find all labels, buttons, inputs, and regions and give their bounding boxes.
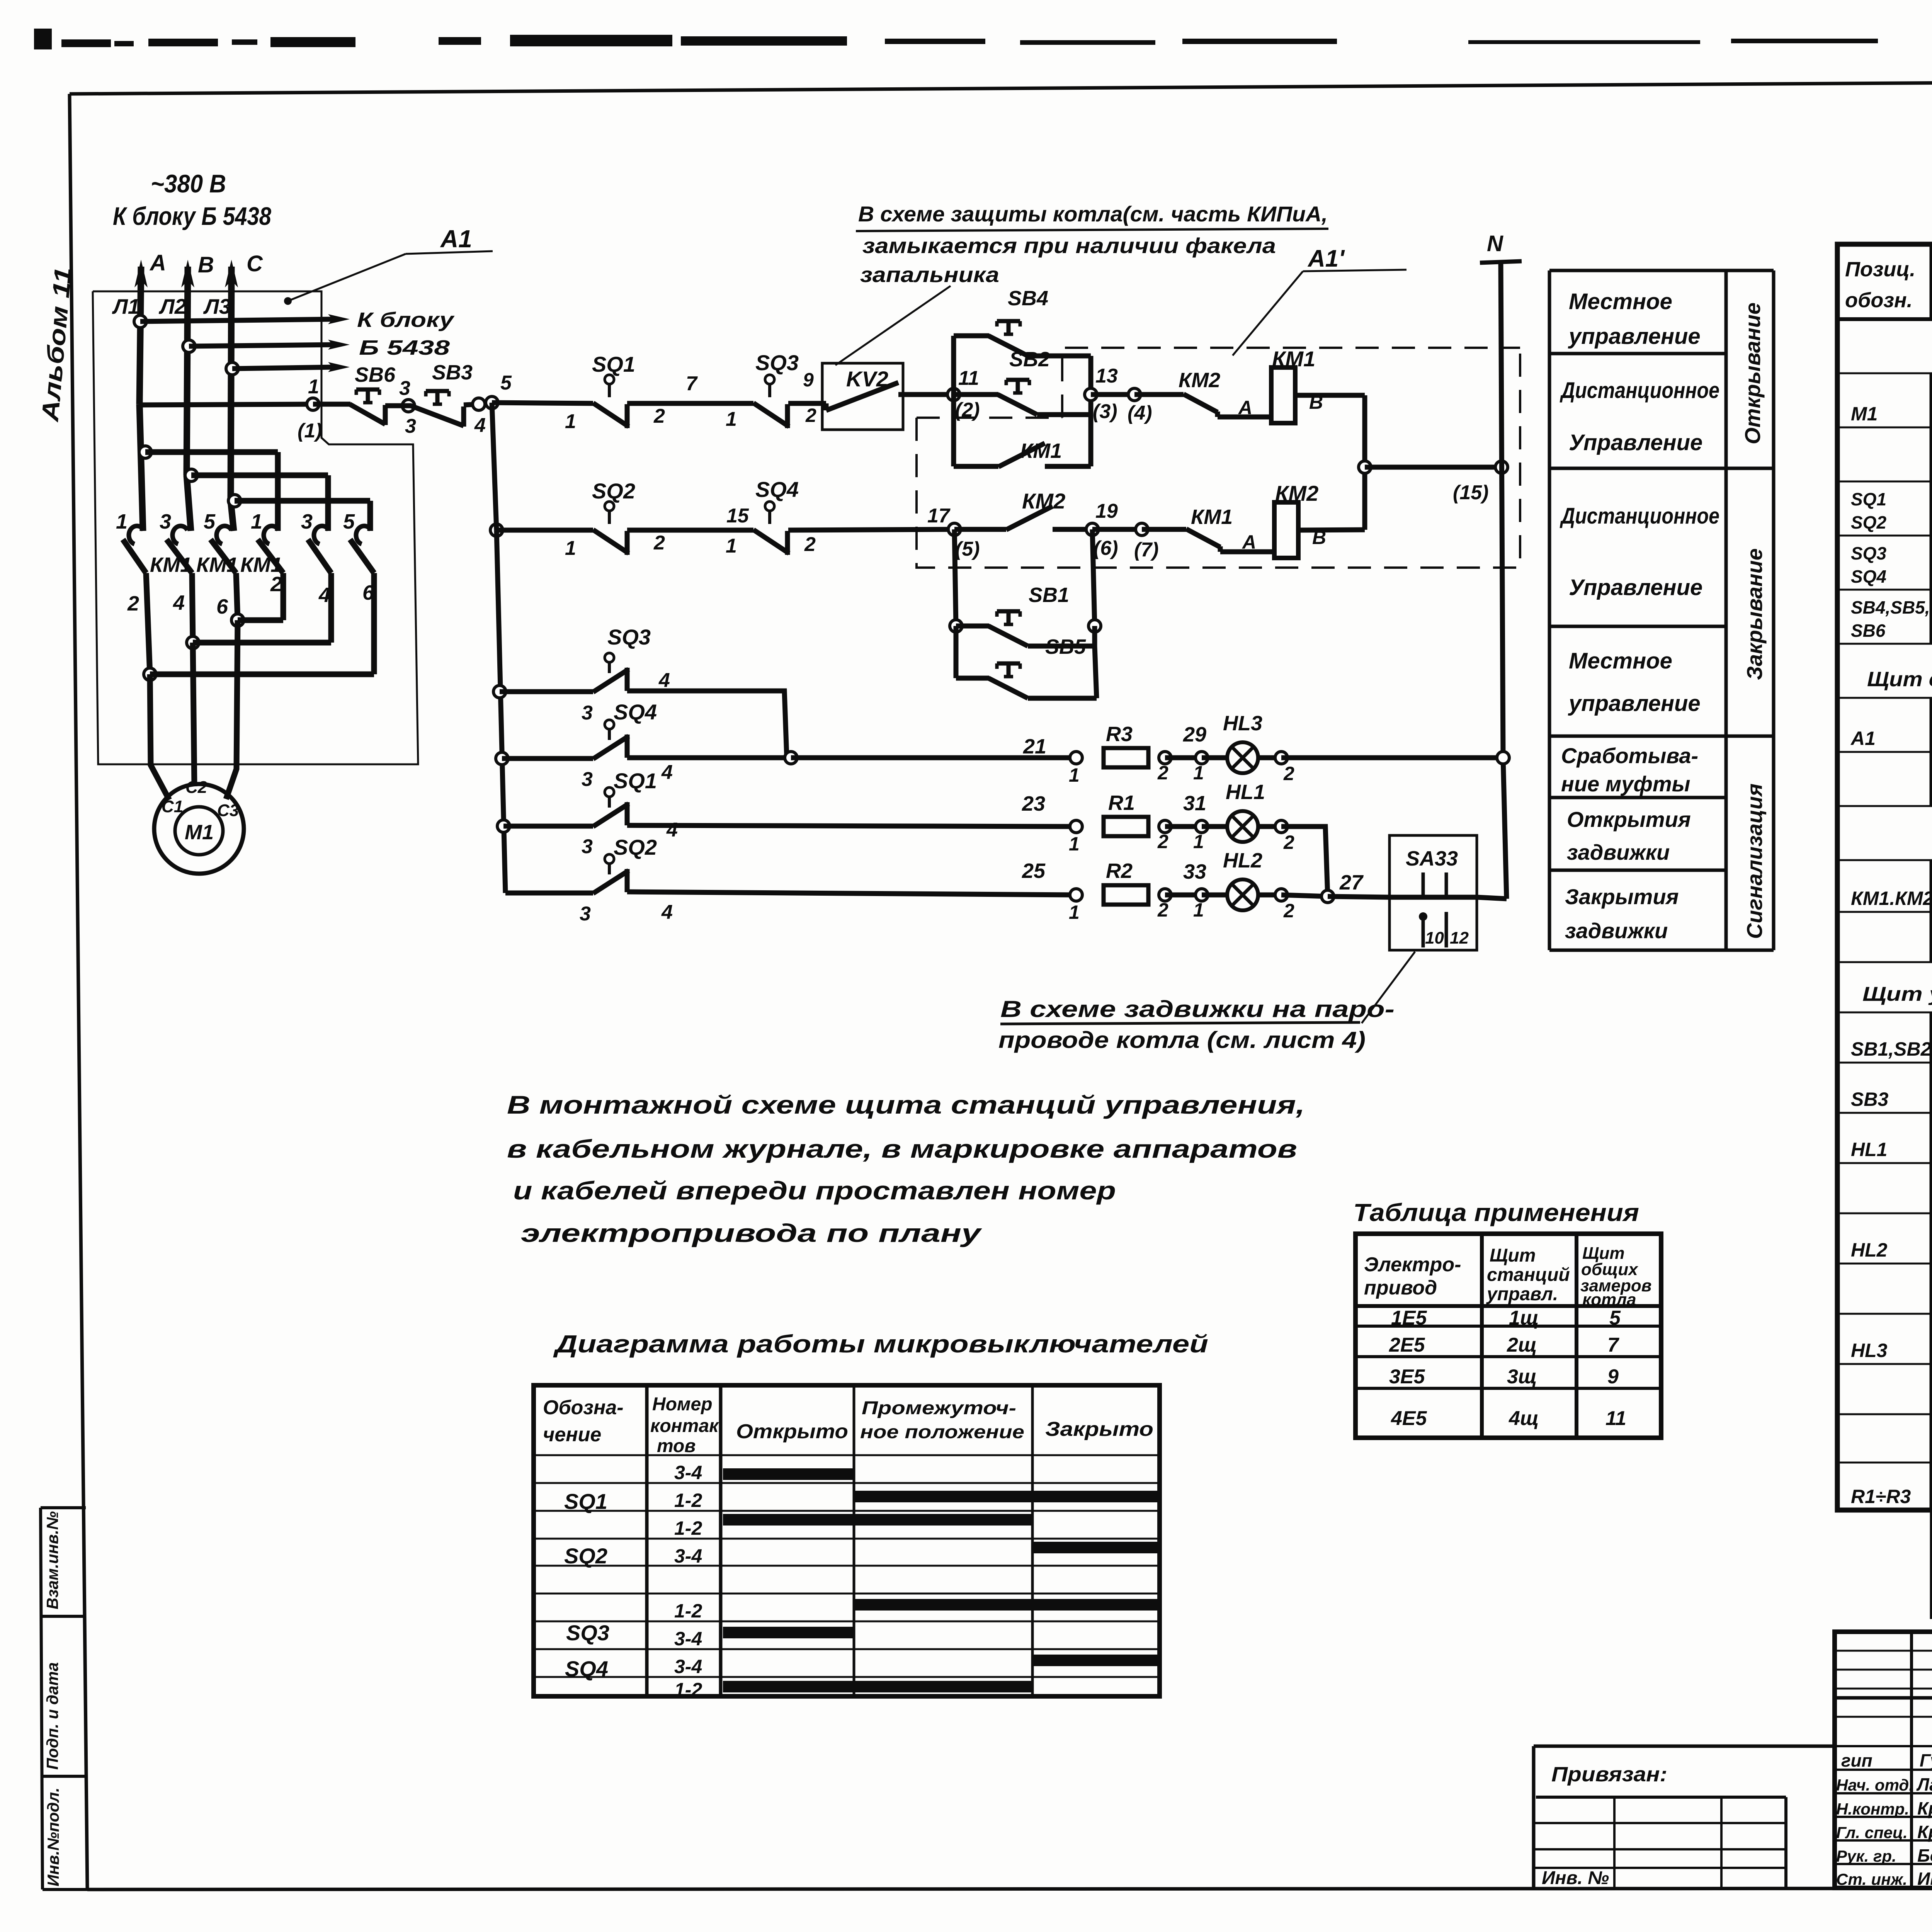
svg-text:12: 12 — [1450, 929, 1469, 947]
svg-text:1: 1 — [1193, 899, 1204, 921]
diagram contact row 3-4 bar — [674, 1542, 1157, 1567]
svg-text:33: 33 — [1183, 860, 1206, 883]
limit switch SQ3 aux contact — [593, 653, 629, 692]
svg-text:4: 4 — [658, 669, 670, 692]
svg-text:чение: чение — [543, 1423, 601, 1446]
node after R1 — [1157, 820, 1171, 852]
svg-text:Креймер: Креймер — [1917, 1822, 1932, 1842]
wire to lamp HL1 — [1202, 824, 1227, 829]
svg-text:SB2: SB2 — [1009, 348, 1050, 371]
svg-text:1: 1 — [726, 408, 737, 430]
svg-text:2: 2 — [1283, 763, 1294, 784]
svg-text:1: 1 — [1069, 833, 1080, 855]
main contact pole 5 (KM2) — [308, 526, 331, 573]
connector pins 10 12 — [1419, 912, 1469, 947]
phase B line — [181, 260, 194, 531]
svg-text:SQ4: SQ4 — [565, 1656, 608, 1681]
svg-text:1: 1 — [1193, 762, 1204, 784]
wire K bloku with arrow — [134, 308, 455, 332]
svg-text:1: 1 — [1069, 901, 1080, 923]
contact KM2 aux — [1006, 506, 1053, 530]
svg-text:1-2: 1-2 — [674, 1600, 702, 1622]
terminal labels SQ1 — [565, 405, 665, 433]
svg-text:КМ1: КМ1 — [196, 553, 238, 577]
element row SB3 — [1851, 1071, 1932, 1116]
svg-text:2: 2 — [1283, 832, 1294, 853]
pushbutton SB3 — [411, 391, 464, 427]
node 1 — [298, 376, 322, 442]
application row 4E5 — [1391, 1407, 1626, 1430]
svg-text:3: 3 — [399, 377, 410, 400]
svg-text:(3): (3) — [1093, 400, 1117, 423]
wire SQ1 to SQ3 — [627, 401, 753, 406]
node 5 — [486, 372, 512, 409]
terminal labels SQ4 aux — [582, 761, 673, 791]
element row М1 — [1851, 401, 1932, 425]
svg-text:SQ2: SQ2 — [1851, 512, 1886, 532]
svg-text:С: С — [247, 251, 263, 276]
pole2 bottom wire — [187, 573, 199, 649]
diagram contact row 3-4 bar — [674, 1655, 1157, 1677]
terminal labels SQ1 aux — [582, 819, 678, 858]
svg-text:электропривода по плану: электропривода по плану — [521, 1219, 982, 1247]
wire 27 to SA33 — [1281, 871, 1389, 903]
svg-text:SQ1: SQ1 — [564, 1489, 607, 1514]
diagram header — [543, 1394, 1153, 1456]
wire 21 — [791, 735, 1076, 758]
svg-text:Инв.№подл.: Инв.№подл. — [44, 1787, 62, 1886]
svg-text:Щит: Щит — [1490, 1245, 1536, 1266]
aux rung SQ4 — [496, 752, 593, 765]
wire SB2 main branch — [954, 392, 998, 397]
svg-text:R3: R3 — [1106, 723, 1133, 746]
svg-text:SB5: SB5 — [1045, 635, 1086, 658]
wire HL1 right corner down — [1281, 827, 1328, 896]
svg-text:SB1: SB1 — [1029, 583, 1069, 607]
svg-text:КМ2: КМ2 — [1179, 369, 1220, 392]
svg-text:HL1: HL1 — [1226, 781, 1265, 804]
wire to lamp HL2 — [1202, 893, 1227, 898]
svg-text:3: 3 — [582, 835, 593, 858]
svg-text:31: 31 — [1183, 792, 1206, 815]
svg-text:1: 1 — [565, 410, 576, 433]
control rung 1 wire from phase A — [139, 404, 313, 405]
aux rung SQ1 — [497, 820, 593, 832]
svg-text:10: 10 — [1425, 929, 1444, 947]
svg-text:Закрыто: Закрыто — [1045, 1418, 1153, 1440]
svg-text:КМ1: КМ1 — [1272, 347, 1315, 371]
pushbutton SB1 — [988, 611, 1028, 646]
svg-text:Латынцев: Латынцев — [1916, 1774, 1932, 1794]
svg-text:4: 4 — [474, 414, 486, 437]
node after R2 — [1157, 889, 1171, 921]
svg-text:Гусева: Гусева — [1920, 1750, 1932, 1770]
lamp HL1 — [1227, 811, 1258, 842]
svg-text:КМ1: КМ1 — [1191, 505, 1233, 529]
svg-text:9: 9 — [1607, 1366, 1619, 1388]
node 19 — [1086, 500, 1118, 560]
relay contact KV2 box — [822, 363, 954, 430]
coil KM2 — [1274, 502, 1298, 558]
svg-text:1-2: 1-2 — [674, 1490, 702, 1511]
phase B feed to KM2 pole 5 — [185, 469, 328, 531]
node 4 — [473, 398, 486, 437]
node 17 — [927, 505, 980, 560]
svg-text:ное положение: ное положение — [860, 1422, 1024, 1442]
svg-text:А: А — [1242, 531, 1256, 553]
element list table grid — [1837, 244, 1932, 1619]
svg-text:7: 7 — [1607, 1334, 1619, 1356]
svg-text:3-4: 3-4 — [674, 1656, 702, 1677]
svg-text:13: 13 — [1095, 365, 1118, 387]
application row 1E5 — [1391, 1307, 1621, 1329]
svg-text:15: 15 — [726, 505, 749, 527]
svg-text:2щ: 2щ — [1507, 1334, 1537, 1356]
node after lamp HL1 — [1258, 820, 1294, 853]
svg-text:Сигнализация: Сигнализация — [1742, 784, 1767, 939]
svg-text:1: 1 — [116, 510, 128, 533]
svg-text:SQ1: SQ1 — [614, 769, 657, 793]
pushbutton SB4 — [988, 321, 1028, 356]
svg-text:3щ: 3щ — [1507, 1366, 1537, 1388]
svg-text:гип: гип — [1841, 1750, 1872, 1770]
terminal labels SQ2 — [565, 532, 665, 560]
node wire 33 — [1165, 860, 1208, 921]
svg-text:2: 2 — [1157, 899, 1168, 921]
svg-text:Местное: Местное — [1569, 648, 1672, 673]
resistor R3 — [1104, 748, 1148, 767]
svg-text:SB4: SB4 — [1008, 287, 1048, 310]
wire rung2 to SQ2 — [497, 528, 593, 533]
svg-text:Б 5438: Б 5438 — [359, 336, 450, 359]
node wire 29 — [1165, 723, 1208, 784]
svg-text:управление: управление — [1568, 691, 1701, 716]
title block frame — [1835, 1632, 1932, 1888]
node rung2 left — [490, 403, 503, 536]
svg-text:SQ2: SQ2 — [614, 835, 657, 859]
wire 21 junction node — [627, 752, 797, 764]
svg-text:25: 25 — [1022, 859, 1046, 883]
svg-text:Управление: Управление — [1569, 430, 1702, 455]
node 13 — [1085, 365, 1118, 423]
svg-text:4щ: 4щ — [1509, 1407, 1539, 1430]
motor lead C2 — [193, 643, 194, 786]
limit switch SQ3 contact — [753, 375, 789, 428]
svg-text:R1÷R3: R1÷R3 — [1851, 1486, 1911, 1507]
svg-text:9: 9 — [803, 369, 814, 391]
diagram contact row 3-4 bar — [674, 1627, 854, 1650]
svg-text:(5): (5) — [955, 538, 980, 560]
svg-text:Л2: Л2 — [158, 294, 187, 318]
svg-text:SB1,SB2.: SB1,SB2. — [1851, 1038, 1932, 1060]
terminal labels SQ3 — [726, 369, 816, 430]
svg-text:КМ2: КМ2 — [1022, 489, 1065, 513]
svg-text:КМ1: КМ1 — [1020, 439, 1062, 463]
svg-text:В: В — [198, 252, 214, 277]
svg-text:2: 2 — [805, 405, 816, 426]
svg-text:HL3: HL3 — [1223, 712, 1262, 735]
title block names — [1916, 1750, 1932, 1889]
cell remote control 1 — [1560, 378, 1719, 455]
svg-text:11: 11 — [1605, 1407, 1626, 1430]
contact KM2 NC — [1184, 394, 1271, 417]
wire node17 down to SB1 branch — [950, 529, 962, 632]
svg-text:3-4: 3-4 — [674, 1545, 702, 1567]
node 15 tie — [1359, 461, 1508, 504]
svg-text:SB4,SB5,: SB4,SB5, — [1851, 597, 1930, 617]
note montage scheme — [507, 1090, 1305, 1247]
svg-text:В схеме задвижки на паро-: В схеме задвижки на паро- — [1000, 996, 1395, 1022]
svg-text:К блоку: К блоку — [357, 308, 455, 332]
svg-text:5: 5 — [1609, 1307, 1621, 1329]
svg-text:проводе котла (см. лист 4): проводе котла (см. лист 4) — [998, 1027, 1366, 1053]
svg-text:1Е5: 1Е5 — [1391, 1307, 1427, 1329]
svg-text:КМ1.КМ2: КМ1.КМ2 — [1851, 888, 1932, 909]
svg-text:Рук. гр.: Рук. гр. — [1836, 1847, 1896, 1865]
svg-text:19: 19 — [1095, 500, 1118, 522]
svg-text:М1: М1 — [1851, 403, 1878, 425]
svg-text:N: N — [1487, 231, 1503, 256]
node before R1 — [1069, 820, 1082, 855]
svg-text:станций: станций — [1487, 1265, 1570, 1285]
svg-text:управление: управление — [1568, 324, 1701, 349]
element list header — [1845, 258, 1932, 312]
signal table — [1549, 270, 1774, 950]
svg-text:обозн.: обозн. — [1845, 289, 1913, 312]
svg-text:3: 3 — [301, 510, 313, 533]
svg-text:5: 5 — [204, 510, 216, 533]
cell local control 2 — [1568, 648, 1701, 716]
svg-text:SA33: SA33 — [1406, 847, 1458, 870]
block A1 thin boundary — [93, 291, 418, 764]
wire branch down KM1 aux — [954, 395, 998, 466]
coil KM1 — [1271, 367, 1295, 423]
cell valve opening — [1567, 807, 1691, 864]
wire SB5 loop — [956, 626, 1097, 698]
wire 23 — [627, 792, 1076, 827]
svg-text:SB6: SB6 — [1851, 621, 1886, 641]
main contact pole 6 (KM2) — [350, 526, 374, 573]
resistor R1 — [1104, 817, 1148, 836]
svg-text:С3: С3 — [217, 801, 239, 820]
svg-text:SQ3: SQ3 — [755, 350, 799, 375]
svg-text:17: 17 — [927, 505, 951, 527]
svg-text:Позиц.: Позиц. — [1845, 258, 1915, 281]
svg-text:HL2: HL2 — [1223, 849, 1262, 872]
block A1' dashed boundary — [917, 348, 1520, 568]
svg-text:Гл. спец.: Гл. спец. — [1836, 1823, 1908, 1842]
node before R3 — [1069, 752, 1082, 786]
cell local control 1 — [1568, 289, 1701, 349]
bound to label box — [1534, 1746, 1835, 1888]
node (7) — [1092, 523, 1159, 561]
svg-text:1: 1 — [726, 535, 737, 557]
svg-text:SB3: SB3 — [1851, 1088, 1888, 1110]
svg-text:SQ3: SQ3 — [1851, 543, 1886, 563]
svg-text:Управление: Управление — [1569, 575, 1702, 600]
svg-text:SB3: SB3 — [432, 361, 473, 384]
wire SQ4 to node 17 — [788, 529, 954, 530]
svg-text:замыкается при наличии факел: замыкается при наличии факела — [862, 233, 1276, 258]
svg-text:5: 5 — [343, 510, 355, 533]
svg-text:3: 3 — [405, 415, 416, 437]
svg-text:SQ4: SQ4 — [1851, 566, 1886, 587]
node (4) — [1091, 388, 1152, 424]
limit switch SQ4 contact — [753, 502, 789, 555]
svg-text:задвижки: задвижки — [1567, 840, 1670, 864]
svg-text:SQ1: SQ1 — [1851, 489, 1886, 509]
svg-text:Дистанционное: Дистанционное — [1560, 503, 1719, 529]
svg-text:1: 1 — [251, 510, 262, 533]
limit switch SQ2 contact — [593, 502, 629, 555]
limit switch SQ2 aux contact — [593, 854, 629, 893]
terminal labels SQ2 aux — [580, 901, 673, 925]
svg-text:Щит станций управления(см.табл: Щит станций управления(см.таблицу примен… — [1867, 668, 1932, 691]
svg-text:11: 11 — [958, 367, 979, 389]
title block roles — [1836, 1750, 1913, 1888]
phase C line — [225, 260, 238, 531]
main contact pole 3 (KM1) — [211, 526, 236, 573]
svg-text:Дистанционное: Дистанционное — [1560, 378, 1719, 403]
aux rung SQ3 — [493, 685, 593, 698]
wire SB3 to node 5 — [464, 404, 479, 405]
svg-text:SQ2: SQ2 — [592, 479, 635, 503]
vertical feed line left — [497, 530, 505, 893]
svg-text:HL1: HL1 — [1851, 1139, 1887, 1160]
motor lead C1 — [150, 674, 169, 800]
svg-text:и кабелей впереди проставл: и кабелей впереди проставлен номер — [513, 1176, 1116, 1205]
diagram table grid — [534, 1385, 1160, 1696]
wire to KM2 NC contact — [1134, 392, 1184, 397]
svg-text:Открытия: Открытия — [1567, 807, 1691, 832]
cell valve closing — [1565, 884, 1679, 943]
svg-text:1-2: 1-2 — [674, 1679, 702, 1701]
svg-text:Номер: Номер — [652, 1394, 713, 1415]
svg-text:3: 3 — [160, 510, 171, 533]
aux rung SQ2 — [505, 891, 593, 896]
element row А1 — [1850, 725, 1932, 750]
wire SB2 to node 13 — [1037, 412, 1091, 417]
svg-text:3: 3 — [582, 768, 593, 791]
phase A line — [134, 260, 148, 531]
svg-text:А: А — [1238, 397, 1252, 418]
svg-text:SQ4: SQ4 — [614, 700, 657, 724]
svg-text:4Е5: 4Е5 — [1391, 1407, 1427, 1430]
svg-text:ние муфты: ние муфты — [1561, 772, 1690, 796]
svg-text:контак: контак — [650, 1416, 719, 1436]
svg-text:SQ2: SQ2 — [564, 1544, 607, 1568]
tie wire poles 1-6 — [150, 573, 374, 674]
svg-text:HL3: HL3 — [1851, 1340, 1888, 1361]
diagram contact row 3-4 bar — [674, 1462, 854, 1483]
terminal labels SQ3 aux — [582, 669, 670, 724]
motor lead C3 — [226, 620, 238, 799]
svg-text:привод: привод — [1364, 1277, 1437, 1299]
element row SB1 — [1851, 1021, 1932, 1065]
svg-text:R1: R1 — [1108, 791, 1135, 815]
svg-text:Таблица применения: Таблица применения — [1353, 1199, 1639, 1226]
svg-text:2: 2 — [1157, 831, 1168, 852]
svg-text:Закрывание: Закрывание — [1742, 548, 1767, 680]
main contact pole 2 (KM1) — [167, 526, 192, 573]
limit switch SQ1 aux contact — [593, 787, 629, 827]
svg-text:Открыто: Открыто — [736, 1420, 848, 1443]
svg-text:Электро-: Электро- — [1364, 1253, 1461, 1276]
contact KM1 NC — [1186, 529, 1274, 552]
svg-text:SB6: SB6 — [355, 363, 396, 386]
svg-text:4: 4 — [661, 761, 673, 784]
svg-text:М1: М1 — [185, 821, 214, 844]
wire to KM1 NC contact — [1142, 527, 1186, 532]
svg-text:Взам.инв.№: Взам.инв.№ — [43, 1511, 61, 1609]
svg-text:А: А — [149, 250, 166, 276]
svg-text:В монтажной схеме щита стан: В монтажной схеме щита станций управлени… — [507, 1090, 1305, 1119]
wire SA33 to N corner — [1477, 897, 1507, 899]
wire coil KM1 to right bus — [1295, 395, 1365, 530]
diagram contact row 1-2 bar — [674, 1599, 1157, 1622]
svg-text:задвижки: задвижки — [1565, 918, 1668, 943]
wire SQ2 to SQ4 — [627, 528, 753, 533]
node 11 — [947, 367, 980, 421]
svg-text:(7): (7) — [1134, 539, 1159, 561]
wire node3 to SB3 — [385, 403, 412, 408]
svg-text:Л1: Л1 — [112, 294, 139, 318]
svg-text:3Е5: 3Е5 — [1389, 1366, 1425, 1388]
svg-text:6: 6 — [216, 595, 228, 618]
svg-text:2: 2 — [270, 573, 282, 596]
svg-text:23: 23 — [1022, 792, 1045, 815]
lamp HL3 — [1227, 742, 1258, 773]
svg-text:(4): (4) — [1128, 402, 1152, 424]
svg-text:С1: С1 — [162, 797, 183, 816]
svg-text:SQ3: SQ3 — [607, 625, 651, 649]
wire node17 to KM2 aux — [954, 527, 1006, 532]
leader to note SA33 — [1362, 952, 1415, 1023]
limit switch SQ4 aux contact — [593, 720, 629, 759]
svg-text:3: 3 — [582, 702, 593, 724]
svg-text:Креймер: Креймер — [1917, 1798, 1932, 1818]
svg-text:(15): (15) — [1453, 481, 1488, 504]
pushbutton SB6 — [350, 389, 385, 425]
wire 25 — [627, 859, 1076, 895]
main contact pole 1 (KM1) — [123, 526, 146, 573]
wire KM2 aux to node 19 — [1053, 527, 1092, 532]
element row R1÷R3 — [1851, 1483, 1932, 1508]
svg-text:Промежуточ-: Промежуточ- — [862, 1398, 1016, 1418]
wire coil KM2 to right bus — [1298, 530, 1365, 530]
wire SQ3 to KV2 — [788, 403, 826, 410]
svg-text:Щит управления общих замеров к: Щит управления общих замеров котла(см.та… — [1862, 983, 1932, 1005]
svg-text:С2: С2 — [185, 778, 207, 797]
application table header — [1364, 1244, 1651, 1309]
svg-text:управл.: управл. — [1486, 1284, 1558, 1304]
main contact pole 4 (KM2) — [258, 526, 283, 573]
element row HL3 — [1851, 1337, 1932, 1362]
element row SQ3 — [1851, 543, 1932, 587]
svg-text:HL2: HL2 — [1851, 1239, 1888, 1261]
svg-text:Ст. инж.: Ст. инж. — [1836, 1870, 1907, 1888]
svg-text:Н.контр.: Н.контр. — [1836, 1800, 1909, 1818]
diagram contact row 1-2 bar — [674, 1490, 1157, 1511]
svg-text:Подп. и дата: Подп. и дата — [43, 1662, 61, 1770]
scan artifact top band — [34, 29, 1932, 49]
svg-text:1-2: 1-2 — [674, 1517, 702, 1539]
svg-text:запальника: запальника — [860, 262, 999, 287]
application row 3E5 — [1389, 1366, 1619, 1388]
svg-text:Инв. №: Инв. № — [1542, 1868, 1609, 1888]
N line — [1480, 231, 1522, 899]
phase A feed to KM2 pole 4 — [139, 446, 278, 531]
